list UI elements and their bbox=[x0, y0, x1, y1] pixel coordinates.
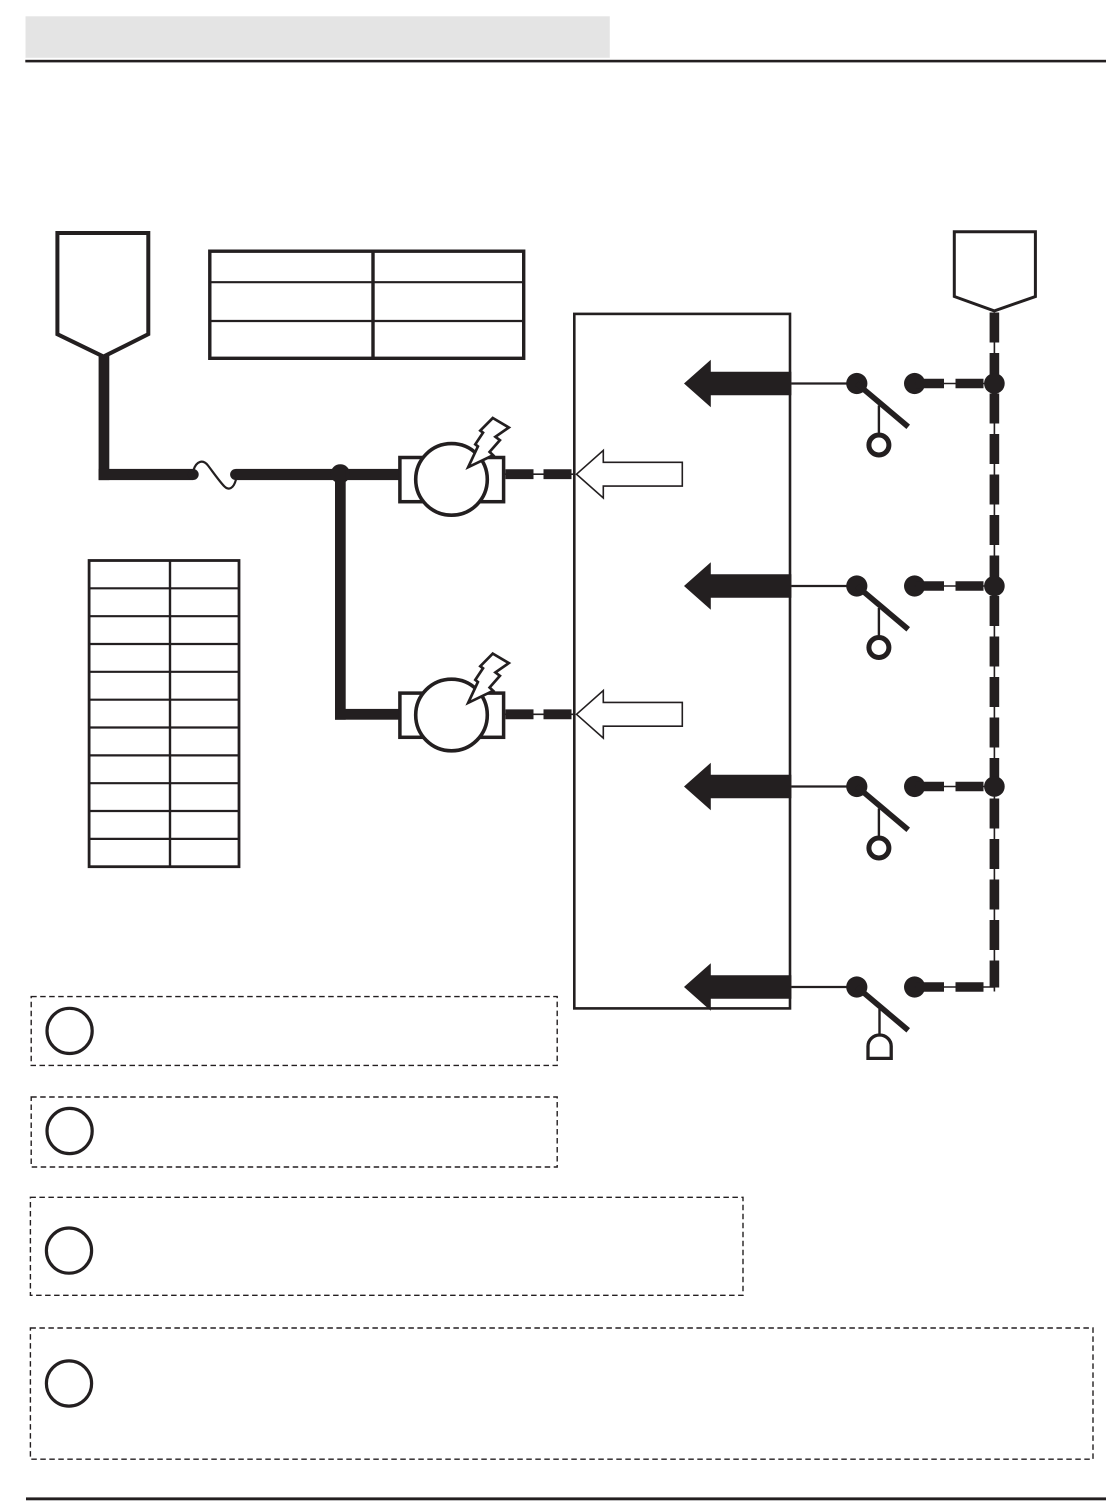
switch S3 (float switch) bbox=[846, 776, 908, 858]
wire: panel to switch S3 bbox=[791, 785, 856, 787]
dashed bus line from tank T2 bbox=[993, 313, 995, 992]
bus junction dot 3 bbox=[984, 776, 1005, 797]
footer rule bbox=[26, 1497, 1106, 1500]
wire break squiggle bbox=[194, 462, 237, 489]
spec table (3x2) bbox=[210, 251, 524, 358]
bus junction dot 2 bbox=[984, 576, 1005, 597]
note box 3 bbox=[30, 1197, 743, 1295]
note box 1 bbox=[31, 997, 557, 1066]
flow arrow A2 (solid, pointing left) bbox=[684, 562, 791, 610]
pump M2 (motor-driven pump) bbox=[400, 654, 509, 751]
switch S4 (float switch) bbox=[846, 976, 908, 1058]
wire: run to junction and pump M1 bbox=[230, 469, 241, 480]
contact dot node 3 bbox=[904, 776, 925, 797]
flow arrow A4 (solid, pointing left) bbox=[684, 963, 791, 1011]
header title bar bbox=[26, 16, 610, 58]
dashed link: pump M2 to panel bbox=[504, 713, 576, 715]
control panel box bbox=[574, 314, 790, 1009]
note box 4 bbox=[30, 1328, 1093, 1459]
flow arrow A1 (solid, pointing left) bbox=[684, 360, 791, 408]
tank T1 (left reservoir) bbox=[57, 233, 148, 357]
contact dot node 2 bbox=[904, 575, 925, 596]
dashed link: node 1 to bus bbox=[915, 383, 995, 385]
data table (11x2) bbox=[89, 560, 239, 867]
note number circle 1 bbox=[47, 1008, 92, 1053]
contact dot node 4 bbox=[904, 976, 925, 997]
tank T2 (right reservoir) bbox=[954, 232, 1035, 311]
dashed link: pump M1 to panel bbox=[504, 473, 576, 475]
switch S2 (float switch) bbox=[846, 575, 908, 657]
junction node dot bbox=[331, 464, 350, 483]
contact dot node 1 bbox=[904, 373, 925, 394]
dashed link: node 3 to bus bbox=[915, 786, 995, 788]
dashed link: node 2 to bus bbox=[915, 585, 995, 587]
wire: panel to switch S2 bbox=[791, 585, 856, 587]
wire: panel to switch S1 bbox=[791, 382, 856, 384]
note number circle 3 bbox=[46, 1228, 91, 1273]
wire: horizontal run to break bbox=[99, 469, 194, 480]
note number circle 2 bbox=[47, 1108, 92, 1153]
supply arrow W1 (open, pointing left) bbox=[577, 450, 683, 498]
pump M1 (motor-driven pump) bbox=[400, 418, 509, 515]
note box 2 bbox=[31, 1097, 557, 1167]
supply arrow W2 (open, pointing left) bbox=[577, 691, 683, 739]
bus junction dot 1 bbox=[984, 373, 1005, 394]
flow arrow A3 (solid, pointing left) bbox=[684, 763, 791, 811]
dashed link: node 4 to bus bbox=[915, 986, 995, 988]
wire: tank T1 down-stem bbox=[99, 356, 110, 480]
wire: run to pump M2 bbox=[335, 709, 399, 720]
switch S1 (float switch) bbox=[846, 373, 908, 455]
wire: branch down to row B bbox=[335, 469, 346, 720]
note number circle 4 bbox=[46, 1361, 91, 1406]
wire: panel to switch S4 bbox=[791, 986, 856, 988]
header rule bbox=[25, 60, 1106, 63]
